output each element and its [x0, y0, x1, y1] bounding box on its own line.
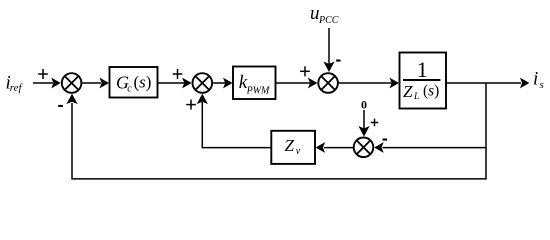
- svg-text:PCC: PCC: [318, 15, 339, 26]
- svg-text:i: i: [533, 69, 538, 90]
- svg-text:PWM: PWM: [246, 86, 270, 97]
- svg-text:L: L: [413, 92, 419, 102]
- svg-text:Z: Z: [403, 82, 413, 101]
- svg-text:ref: ref: [10, 82, 24, 94]
- svg-text:0: 0: [361, 98, 367, 112]
- svg-text:s: s: [540, 79, 544, 91]
- svg-text:Z: Z: [285, 136, 295, 155]
- svg-text:(s): (s): [134, 73, 152, 92]
- svg-text:(s): (s): [423, 83, 439, 100]
- svg-text:1: 1: [417, 57, 428, 82]
- svg-text:c: c: [127, 83, 132, 94]
- svg-text:v: v: [296, 146, 301, 157]
